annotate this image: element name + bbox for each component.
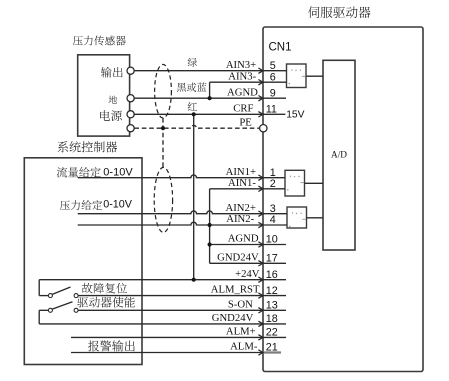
svg-text:PE: PE: [239, 116, 251, 128]
svg-text:AIN3+: AIN3+: [226, 59, 256, 71]
svg-text:S-ON: S-ON: [228, 298, 253, 310]
svg-text:AIN2-: AIN2-: [226, 213, 254, 225]
svg-text:12: 12: [266, 285, 278, 297]
svg-text:AGND: AGND: [227, 86, 258, 98]
svg-text:AIN3-: AIN3-: [228, 70, 256, 82]
svg-text:15V: 15V: [286, 110, 304, 121]
svg-text:5: 5: [270, 60, 276, 72]
svg-text:AIN2+: AIN2+: [226, 202, 256, 214]
svg-text:GND24V: GND24V: [217, 251, 259, 263]
svg-text:17: 17: [266, 253, 278, 265]
svg-text:ALM+: ALM+: [226, 326, 256, 338]
svg-text:13: 13: [266, 300, 278, 312]
svg-text:3: 3: [270, 203, 276, 215]
svg-text:ALM_RST: ALM_RST: [211, 284, 260, 296]
svg-text:CN1: CN1: [269, 42, 292, 54]
svg-text:A/D: A/D: [331, 150, 347, 160]
svg-text:22: 22: [266, 327, 278, 339]
svg-text:CRF: CRF: [233, 102, 253, 114]
svg-text:AGND: AGND: [228, 233, 259, 245]
svg-text:ALM-: ALM-: [230, 341, 258, 353]
svg-text:0-10V: 0-10V: [103, 167, 133, 179]
svg-text:2: 2: [270, 178, 276, 190]
svg-text:0-10V: 0-10V: [103, 198, 133, 210]
svg-text:6: 6: [270, 71, 276, 83]
svg-text:10: 10: [266, 234, 278, 246]
svg-text:4: 4: [270, 214, 276, 226]
svg-text:11: 11: [266, 104, 277, 116]
svg-text:+24V: +24V: [235, 268, 260, 280]
svg-text:GND24V: GND24V: [212, 312, 254, 324]
svg-text:18: 18: [266, 313, 278, 325]
svg-text:21: 21: [266, 342, 278, 354]
svg-text:9: 9: [270, 87, 276, 99]
svg-text:16: 16: [266, 269, 278, 281]
svg-text:AIN1-: AIN1-: [228, 177, 256, 189]
